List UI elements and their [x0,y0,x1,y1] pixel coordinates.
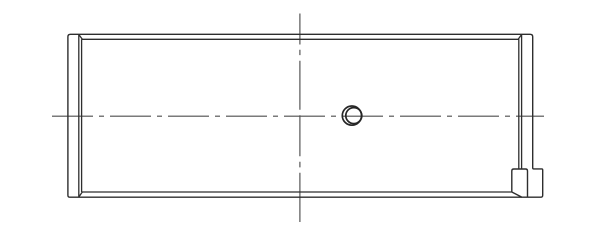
oil hole outer circle [342,106,361,125]
horizontal centerline [52,115,544,117]
top-right corner chamfer [518,35,521,40]
locating tab notch [512,169,528,197]
vertical centerline [299,14,301,223]
inner top edge line [82,38,519,40]
bottom-left corner chamfer [79,192,83,197]
left parting-edge line outer [78,34,80,197]
inner bottom edge line [82,191,512,193]
right parting-edge line inner [518,39,520,169]
bearing outer outline with locating lug step [68,34,543,197]
right parting-edge line outer [521,34,523,169]
oil hole inner circle [346,108,362,124]
left parting-edge line inner [81,39,83,192]
top-left corner chamfer [79,35,83,40]
